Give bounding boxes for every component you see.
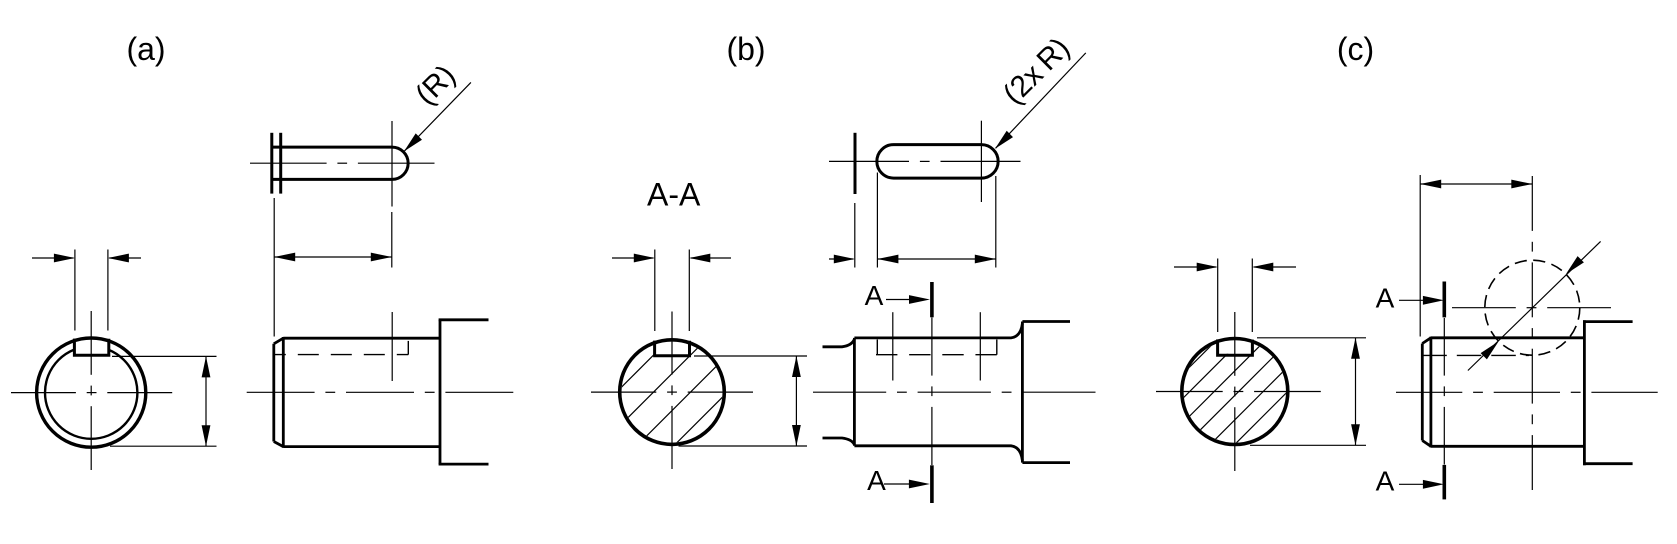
(b) keyseat width extension line right	[688, 250, 690, 332]
(c) cutting plane arrow top	[1399, 299, 1424, 301]
(a) top view chamfer edge line	[279, 133, 282, 194]
(b) keyseat depth extension line bottom	[679, 445, 808, 447]
svg-text:(c): (c)	[1337, 31, 1374, 67]
(c) front view chamfer diagonal bottom	[1422, 441, 1431, 447]
svg-text:A: A	[867, 465, 886, 496]
(c) front view chamfer diagonal top	[1422, 338, 1431, 344]
(b) front view left shoulder	[853, 338, 856, 446]
(b) slot right extension line	[995, 176, 997, 268]
(c) front view chamfer edge	[1430, 337, 1433, 448]
(c) front view larger diameter bottom line	[1583, 462, 1633, 465]
(b) shoulder extension line	[854, 203, 856, 268]
(a) front view shaft centerline	[247, 391, 315, 393]
(a) end view inner chamfer circle	[45, 346, 137, 438]
(b) top view end-radius center mark	[980, 121, 982, 202]
(b) radius leader arrowhead	[995, 131, 1013, 149]
(b) top view slot centerline	[829, 160, 909, 162]
(b) front view larger diameter top line	[1022, 320, 1070, 323]
(c) cutting plane arrow bottom	[1399, 483, 1424, 485]
(a) keyseat width dimension arrow right	[109, 257, 141, 259]
(b) front view shaft top line with fillet	[854, 324, 1022, 338]
(b) keyseat depth dimension line	[795, 356, 797, 446]
(b) keyseat depth extension line top	[694, 355, 807, 357]
(c) cutting plane thick mark bottom	[1443, 465, 1447, 500]
(a) top view keyseat slot outline	[272, 147, 408, 179]
(a) front view larger diameter top line	[439, 318, 489, 321]
(c) cutter location dimension line	[1420, 183, 1532, 185]
(c) cutter location arrow left	[1420, 180, 1441, 189]
(b) cutting plane line	[931, 318, 933, 376]
(c) shaft diameter arrow down	[1351, 424, 1360, 445]
(a) top view end-radius center mark	[391, 121, 393, 207]
(a) front view hidden keyseat bottom line	[274, 354, 409, 356]
(c) front view hidden keyseat bottom line	[1422, 354, 1529, 356]
(b) keyseat width dimension arrow right	[691, 257, 731, 259]
svg-text:(a): (a)	[126, 31, 165, 67]
(c) front view shaft bottom line	[1431, 445, 1585, 448]
(b) top view shaft shoulder line	[854, 133, 857, 194]
(b) top view keyseat slot outline	[877, 145, 998, 179]
(b) radius leader line	[996, 53, 1086, 148]
svg-text:A: A	[865, 280, 884, 311]
(b) front view small diameter top line with fillet	[823, 339, 855, 347]
(b) front view keyseat right radius center mark	[979, 312, 981, 380]
(b) section keyseat notch	[655, 341, 690, 356]
(c) cutter circle vertical centerline	[1531, 176, 1533, 231]
(c) cutter diameter arrow lower	[1481, 341, 1499, 359]
(a) front view shaft bottom line	[283, 445, 440, 448]
(a) keyseat depth extension line bottom	[110, 445, 217, 447]
(a) front view keyseat end-radius center mark	[391, 312, 393, 381]
(a) end view keyseat notch	[74, 339, 108, 356]
(a) keyseat depth extension line top	[112, 355, 217, 357]
(a) end view vertical centerline	[90, 311, 92, 375]
(a) keyseat length dimension line	[274, 256, 392, 258]
(c) cutter circle horizontal centerline	[1452, 307, 1516, 309]
(a) keyseat width dimension arrow left	[32, 257, 74, 259]
(b) front view larger diameter bottom line	[1022, 461, 1070, 464]
(c) section shaft outer circle	[1182, 339, 1288, 445]
(c) cutter diameter dimension line	[1468, 241, 1601, 370]
(a) keyseat depth arrow up	[202, 356, 211, 377]
(a) front view larger diameter bottom line	[439, 463, 489, 466]
(a) radius leader line	[405, 82, 471, 150]
(c) cutting plane line	[1443, 318, 1445, 376]
(c) front view shaft end face	[1421, 344, 1424, 441]
(a) keyseat depth dimension line	[205, 356, 207, 446]
(c) section vertical centerline	[1234, 312, 1236, 376]
(c) front view larger diameter top line	[1583, 320, 1633, 323]
svg-text:A-A: A-A	[647, 177, 701, 213]
(c) keyseat width dimension arrow right	[1254, 266, 1296, 268]
(b) cutting plane arrow top	[886, 299, 911, 301]
(a) keyseat width extension line right	[107, 250, 109, 331]
(b) section shaft outer circle	[620, 340, 725, 445]
(c) section hatching	[1013, 230, 1474, 544]
(b) cutting plane thick mark top	[930, 282, 934, 317]
(c) keyseat width extension line right	[1251, 259, 1253, 333]
(c) shaft diameter arrow up	[1351, 338, 1360, 359]
(a) end view horizontal centerline	[11, 392, 76, 394]
(a) front view chamfer diagonal bottom	[274, 442, 284, 447]
(c) front view shoulder	[1583, 320, 1586, 465]
(c) keyseat width dimension arrow left	[1174, 266, 1216, 268]
(c) cutting plane thick mark top	[1443, 282, 1447, 318]
svg-text:A: A	[1376, 283, 1395, 314]
(c) keyseat width extension line left	[1217, 259, 1219, 333]
(a) front view chamfer edge	[282, 337, 285, 448]
(a) keyseat depth arrow down	[202, 425, 211, 446]
(c) cutter location arrow right	[1511, 180, 1532, 189]
(b) section hatching	[465, 230, 890, 544]
(c) section keyseat notch	[1218, 339, 1253, 355]
svg-text:(b): (b)	[726, 31, 765, 67]
(b) keyseat width extension line left	[654, 250, 656, 332]
(c) cutter circle (phantom)	[1485, 260, 1580, 355]
(a) keyseat length arrow right	[371, 253, 392, 262]
(b) front view keyseat left radius center mark	[892, 312, 894, 380]
(b) cutting plane arrow bottom	[884, 483, 910, 485]
(b) keyseat width dimension arrow left	[612, 257, 653, 259]
(c) front view shaft centerline	[1396, 391, 1462, 393]
(a) keyseat width extension line left	[74, 250, 76, 331]
(a) top view shaft end line	[270, 133, 273, 194]
(b) front view hidden keyseat bottom line	[876, 354, 997, 356]
(b) front view right shoulder	[1021, 322, 1024, 463]
(b) front view hidden keyseat right end	[996, 340, 998, 355]
(a) keyseat length extension line left	[273, 198, 275, 337]
(a) front view shaft end face	[272, 344, 275, 442]
(b) keyseat length arrow right	[975, 255, 996, 264]
(a) keyseat length arrow left	[274, 253, 295, 262]
(b) front view hidden keyseat left end	[876, 340, 878, 355]
(b) front view shaft centerline	[813, 391, 886, 393]
svg-text:A: A	[1376, 465, 1395, 496]
(b) section vertical centerline	[671, 312, 673, 375]
(a) front view chamfer diagonal top	[274, 338, 284, 344]
(a) front view shaft top line	[283, 337, 440, 340]
(c) cutter diameter arrow upper	[1566, 256, 1584, 274]
(b) keyseat length arrow left	[877, 255, 898, 264]
(a) keyseat length extension line right	[391, 212, 393, 268]
(a) front view shoulder	[439, 320, 442, 464]
(a) radius leader arrowhead	[404, 133, 422, 151]
(a) end view shaft outer circle	[37, 338, 146, 447]
(b) front view small diameter bottom line with fillet	[823, 438, 855, 445]
(c) section horizontal centerline	[1156, 391, 1223, 393]
(c) cutter location extension line	[1419, 175, 1421, 337]
(c) shaft diameter extension line top	[1257, 337, 1366, 339]
(b) keyseat depth arrow up	[792, 356, 801, 377]
(a) top view slot centerline	[250, 162, 327, 164]
(c) shaft diameter extension line bottom	[1250, 444, 1366, 446]
(c) shaft diameter dimension line	[1355, 338, 1357, 446]
(b) front view shaft bottom line with fillet	[854, 446, 1022, 461]
(b) slot left extension line	[876, 173, 878, 268]
(c) front view shaft top line	[1431, 336, 1585, 339]
(b) keyseat depth arrow down	[792, 425, 801, 446]
(a) front view hidden keyseat end line	[407, 341, 409, 355]
(b) section horizontal centerline	[591, 391, 656, 393]
(b) keyseat location dimension arrow	[829, 258, 853, 260]
(b) cutting plane thick mark bottom	[930, 465, 934, 503]
(b) keyseat length dimension line	[877, 258, 995, 260]
